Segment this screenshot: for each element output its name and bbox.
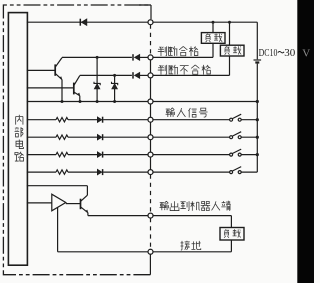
label 负载 in box L2 (225, 46, 242, 55)
switch S2 (151, 132, 258, 139)
transistor Q2 (27, 76, 80, 102)
diode D2 on 判断合格 wire (points left) (133, 54, 140, 60)
load box L1 feed wires (151, 22, 214, 57)
switch S3 (151, 149, 258, 156)
wire: Q2 collector to node (判断不合格 wire) (80, 74, 132, 76)
label 负载 in box L3 (224, 229, 241, 238)
switch S1 (151, 114, 258, 121)
input row 2 (27, 134, 151, 140)
tilde of DC10~30 (278, 51, 284, 52)
load box L2 feed wires (151, 22, 230, 75)
label 判断合格 (158, 46, 198, 56)
svg-text:V: V (302, 47, 310, 59)
wire: load L3 to ground wire (151, 240, 232, 252)
label 输入信号 (166, 108, 208, 118)
diode D1 on top wire (points left) (80, 19, 87, 26)
enclosure dash-dot border (3, 5, 151, 275)
diode D3 on 判断不合格 wire (points left) (133, 72, 140, 78)
label 接地 (181, 241, 201, 250)
wire: Q1 collector to node (判断合格 wire) (62, 56, 132, 58)
transistor Q1 (27, 58, 63, 102)
label 负载 in box L1 (206, 34, 223, 43)
label 判断不合格 (158, 65, 211, 75)
output transistor Q3 (27, 186, 89, 216)
battery DC supply symbol (254, 60, 262, 63)
node: junction dot right bus / switch row1 (256, 118, 259, 121)
input row 4 (27, 169, 151, 175)
wire: buffer ground drop (58, 207, 151, 251)
label 输出到机器人端 (160, 201, 231, 211)
zener diode Z1 (94, 57, 100, 101)
connector bus: dashed and solid segments (150, 25, 152, 250)
wire: input common y101.5 (27, 101, 257, 103)
switch S4 (151, 167, 258, 174)
wire: output node to load L3 (151, 216, 232, 228)
svg-text:DC10: DC10 (259, 48, 278, 59)
input row 3 (27, 152, 151, 158)
buffer amplifier U1 (27, 194, 81, 211)
wire: right bus from battery to last switch (256, 64, 258, 173)
junction dots upper block (96, 56, 99, 59)
black page-edge bar (297, 0, 314, 283)
label DC10~30 V (259, 48, 296, 59)
load box L3 (220, 228, 244, 241)
zener diode Z2 (112, 75, 118, 101)
node: junction dot right bus / input common (256, 100, 259, 103)
internal circuit block 内部电路 (8, 13, 27, 266)
load box L1 (201, 33, 225, 44)
connector terminals (open circles) (148, 20, 153, 255)
node: junction dot right bus / switch row3 (256, 153, 259, 156)
input row 1: wire resistor diode (27, 117, 151, 123)
label 内部电路 (vertical) (15, 115, 24, 161)
wire: top supply wire y22 (27, 5, 257, 22)
node: junction dot right bus / switch row2 (256, 136, 259, 139)
load box L2 (220, 45, 244, 56)
wire: ground node down to border (149, 252, 151, 275)
wire: output row to node (88, 215, 151, 217)
wire: right bus down from top corner (256, 22, 258, 59)
svg-text:30: 30 (284, 48, 295, 59)
